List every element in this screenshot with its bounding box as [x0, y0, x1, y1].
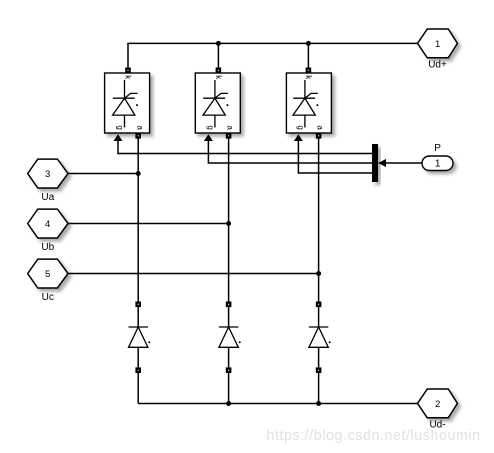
svg-text:g: g — [206, 125, 215, 129]
svg-text:https://blog.csdn.net/lushoumi: https://blog.csdn.net/lushoumin — [267, 428, 481, 444]
pin k port square thyristor U3 — [306, 68, 312, 74]
arrowhead into demux — [379, 159, 387, 167]
svg-text:1: 1 — [435, 159, 441, 170]
svg-text:a: a — [316, 125, 325, 130]
node top junction above thyristor 3 — [306, 41, 311, 46]
wire gate 1 from demux output 1 — [118, 141, 372, 154]
pin bottom port square diode D3 — [316, 367, 322, 373]
svg-text:Ud+: Ud+ — [428, 60, 447, 71]
port Ud+ outport 1 hexagon — [418, 29, 458, 58]
pin k port square thyristor U1 — [125, 68, 131, 74]
pin top port square diode D2 — [226, 302, 232, 308]
pin g gate arrow thyristor U1 — [114, 134, 123, 141]
wire anode column C down to bottom bus — [318, 138, 320, 403]
svg-text:5: 5 — [45, 269, 50, 280]
wire anode column A down to bottom bus — [137, 138, 139, 403]
pin a port square thyristor U2 — [226, 133, 232, 139]
node phase A junction — [136, 171, 141, 176]
pin g gate arrow thyristor U3 — [294, 134, 303, 141]
wire top bus from thyristor cathodes to Ud+ — [128, 43, 418, 68]
pin a port square thyristor U3 — [316, 133, 322, 139]
svg-text:g: g — [296, 125, 305, 129]
pin g gate arrow thyristor U2 — [204, 134, 213, 141]
wire phase A from Ua to anode column — [68, 173, 138, 175]
wire phase C from Uc to anode column — [68, 273, 319, 275]
svg-text:Uc: Uc — [42, 292, 54, 303]
svg-text:Ub: Ub — [41, 242, 54, 253]
svg-text:g: g — [116, 125, 125, 129]
wire gate 3 from demux output 3 — [298, 141, 372, 173]
port Uc inport 5 hexagon — [28, 259, 68, 288]
wire anode column B down to bottom bus — [228, 138, 230, 403]
port P inport 1 rounded — [422, 156, 453, 171]
node phase C junction — [316, 271, 321, 276]
port Ua inport 3 hexagon — [28, 159, 68, 188]
pin bottom port square diode D2 — [226, 367, 232, 373]
thyristor U2 — [195, 73, 240, 133]
svg-text:4: 4 — [45, 219, 50, 230]
svg-text:Ua: Ua — [41, 192, 54, 203]
svg-text:3: 3 — [45, 169, 50, 180]
node phase B junction — [226, 221, 231, 226]
svg-text:2: 2 — [435, 399, 440, 410]
demux (gate signal splitter) — [372, 144, 378, 182]
svg-text:a: a — [135, 125, 144, 130]
node top junction above thyristor 2 — [216, 41, 221, 46]
svg-text:P: P — [434, 143, 441, 154]
diode D3 — [309, 327, 331, 347]
thyristor U1 — [105, 73, 150, 133]
port Ud- outport 2 hexagon — [418, 389, 458, 418]
wire bottom bus to Ud- — [138, 403, 418, 405]
port Ub inport 4 hexagon — [28, 209, 68, 238]
pin bottom port square diode D1 — [135, 367, 141, 373]
thyristor U3 — [286, 73, 331, 133]
diode D1 — [129, 327, 151, 347]
node bottom junction below diode 3 — [316, 401, 321, 406]
pin top port square diode D3 — [316, 302, 322, 308]
wire gate 2 from demux output 2 — [208, 141, 372, 163]
svg-text:1: 1 — [435, 39, 440, 50]
svg-text:a: a — [226, 125, 235, 130]
wire phase B from Ub to anode column — [68, 223, 229, 225]
diode D2 — [219, 327, 241, 347]
pin k port square thyristor U2 — [216, 68, 222, 74]
pin a port square thyristor U1 — [135, 133, 141, 139]
node bottom junction below diode 2 — [226, 401, 231, 406]
pin top port square diode D1 — [135, 302, 141, 308]
wire P input to demux — [379, 162, 423, 164]
